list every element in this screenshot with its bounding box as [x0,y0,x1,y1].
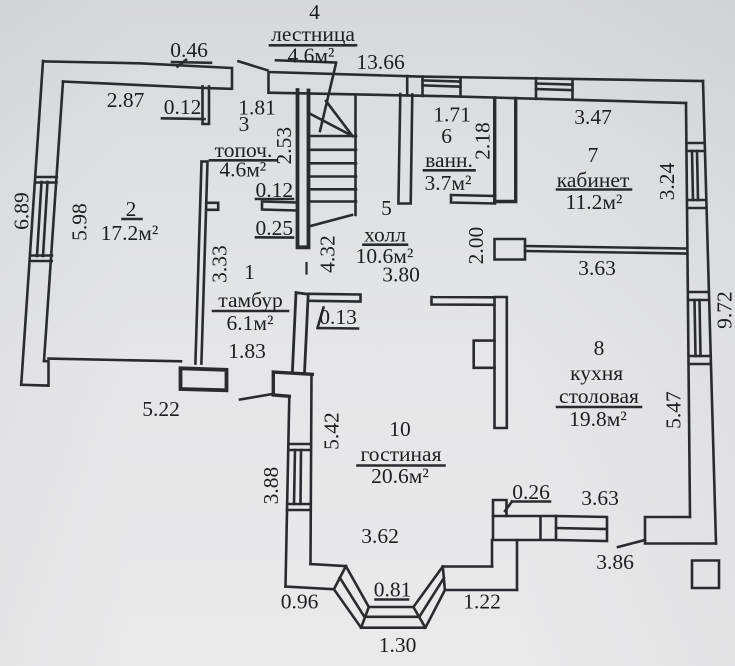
wire: hall south wall band [432,297,495,305]
wire: west wall inner edge [44,82,63,362]
svg-text:0.81: 0.81 [374,578,412,602]
svg-text:3.62: 3.62 [361,524,399,548]
svg-text:2.87: 2.87 [107,88,145,112]
svg-text:3.24: 3.24 [655,162,679,200]
wire: kitchen east corner step [645,517,716,544]
svg-text:10: 10 [389,417,411,441]
wire: bay inner boundary [346,566,443,607]
wire: label underline holl [364,243,408,246]
svg-text:5.98: 5.98 [68,203,92,241]
wire: label underline vann [424,169,475,172]
node: bay miter joints [334,566,445,628]
wire: stair winder fan [311,101,353,136]
svg-text:8: 8 [594,336,605,360]
svg-text:0.12: 0.12 [255,178,293,202]
svg-text:5: 5 [381,196,392,220]
svg-text:холл: холл [364,223,406,247]
svg-text:2: 2 [126,197,137,221]
wire: stair leader line [320,64,336,132]
svg-text:0.46: 0.46 [170,38,208,62]
svg-text:1: 1 [244,260,255,284]
wire: leader 3.86 [618,540,645,547]
wire: dim 0.12 underline top [162,117,205,120]
door leaf hall-tambour [305,263,307,274]
wire: kitchen west lower band [492,540,517,590]
wire: stair bottom cut [311,215,353,226]
svg-text:1.22: 1.22 [463,590,501,614]
svg-text:13.66: 13.66 [356,50,405,74]
wall: tambour west block 5.22 [181,368,227,390]
svg-text:11.2м²: 11.2м² [566,190,623,214]
wire: label underline gostinaya [358,464,445,467]
wall: stair west wall thick band [298,90,309,247]
wire: label underline topoch [210,159,277,162]
radiator box kitchen wall [474,341,495,368]
wire: dim 0.81 underline [376,598,409,601]
svg-text:3.33: 3.33 [208,245,232,283]
svg-text:3.86: 3.86 [596,550,634,574]
svg-text:3.7м²: 3.7м² [425,171,472,195]
svg-text:5.47: 5.47 [662,391,686,429]
wire: room2 bottom wall line [49,359,182,362]
wire: dim 0.13 underline and tick [318,308,359,329]
wire: east wall outer edge [703,81,716,544]
wall: tambour east junction block [273,372,312,396]
wire: partition door stub [206,203,218,210]
svg-text:лестница: лестница [271,22,355,46]
node: living west window caps [287,444,311,510]
wire: north wall outer edge [43,61,703,92]
wire: west wall outer edge [21,61,43,385]
svg-text:6.89: 6.89 [10,192,34,230]
wire: entrance door leaf [240,394,274,400]
wire: boiler stub wall top [203,86,210,124]
svg-text:3: 3 [239,112,250,136]
wire: kitchen west wall band [495,297,507,428]
wire: kitchen/cabinet divider wall [525,246,686,254]
wire: kitchen south window [556,516,607,541]
wire: room2/tambour partition 3.33 [195,162,207,364]
svg-text:тамбур: тамбур [218,288,282,312]
wire: north wall inner edge [63,82,686,104]
wire: bay middle glass line [340,578,444,617]
svg-text:2.00: 2.00 [464,227,488,265]
wire: bay left wall inner [311,564,346,566]
wire: dim 0.25 underline [256,236,293,239]
wire: dim 0.46 line and tick [172,60,211,67]
wire: kitchen 0.26 stub [493,500,507,516]
svg-text:0.13: 0.13 [319,305,357,329]
svg-text:3.63: 3.63 [578,256,616,280]
svg-text:3.80: 3.80 [382,263,420,287]
node: north wall window W2 joints [536,78,573,99]
radiator box cabinet [495,239,526,260]
svg-text:20.6м²: 20.6м² [371,464,429,488]
svg-text:4: 4 [309,0,320,24]
svg-text:2.18: 2.18 [471,122,495,160]
wire: hall/bath partition [398,94,412,204]
svg-text:столовая: столовая [559,384,639,408]
wire: east wall inner edge [686,103,690,517]
svg-text:0.12: 0.12 [164,95,202,119]
wire: boiler south stub wall [262,202,298,211]
wire: living room west wall outer [286,396,290,586]
wire: dim 0.26 underline and leader [505,502,550,512]
wire: west wall window glass lines [37,182,48,256]
wire: dim 0.12 boiler underline [256,198,293,201]
svg-text:1.83: 1.83 [228,339,266,363]
svg-text:2.53: 2.53 [272,127,296,165]
svg-text:0.25: 0.25 [255,216,293,240]
svg-text:19.8м²: 19.8м² [569,407,627,431]
wire: bay right wall outer [445,589,517,592]
wire: living room west wall inner [311,375,312,565]
svg-text:1.71: 1.71 [433,103,471,127]
svg-text:0.26: 0.26 [512,480,550,504]
wire: wall break diagonal [239,61,268,70]
svg-text:кабинет: кабинет [557,168,630,192]
svg-text:6.1м²: 6.1м² [227,311,274,335]
svg-text:гостиная: гостиная [361,442,442,466]
wire: bay outer boundary [334,589,445,628]
svg-text:17.2м²: 17.2м² [101,221,159,245]
wire: label underline 4.6 stairs [276,60,336,62]
svg-text:1.30: 1.30 [379,633,417,657]
svg-text:9.72: 9.72 [713,291,735,329]
wire: stair treads [311,136,357,202]
svg-text:3.88: 3.88 [259,467,283,505]
chimney block [692,561,719,589]
wire: bay left wall outer [286,587,334,590]
wall: bath east / cabinet west thick band [495,98,516,202]
wire: label underline stolovaya [557,406,641,409]
wire: tambour right wall band [292,293,308,373]
svg-text:кухня: кухня [570,361,623,385]
svg-text:4.32: 4.32 [316,235,340,273]
wire: north wall window W1 glass lines [423,80,461,86]
node: east wall window E1 caps [687,143,706,208]
wire: bath south wall [451,195,495,204]
wire: stair right boundary [354,97,357,215]
node: west wall window caps [31,177,57,261]
wire: kitchen south wall solid part [493,516,556,540]
wire: north wall window W2 glass lines [536,84,573,91]
wire: label underline room2 [123,218,142,221]
wire: west wall bottom end [21,361,48,386]
node: north wall window W1 joints [407,76,460,96]
svg-text:7: 7 [588,143,599,167]
svg-text:5.22: 5.22 [142,397,180,421]
wire: bay right wall inner [443,565,492,568]
svg-text:3.47: 3.47 [574,105,612,129]
wire: tambour/hall 0.13 wall [308,294,360,302]
svg-text:0.96: 0.96 [281,590,319,614]
wire: label underline lestnica [270,44,356,47]
svg-text:5.42: 5.42 [320,412,344,450]
wire: label underline kabinet [557,188,631,191]
wire: east wall window E2 glass lines [695,300,701,356]
svg-text:4.6м²: 4.6м² [288,44,335,68]
svg-text:3.63: 3.63 [581,486,619,510]
svg-text:6: 6 [441,124,452,148]
wire: label underline tambur [213,310,288,313]
node: east wall window E2 caps [689,292,709,364]
wire: east wall window E1 glass lines [692,151,698,200]
svg-text:ванн.: ванн. [425,148,473,172]
wire: living west window glass lines [294,450,301,504]
